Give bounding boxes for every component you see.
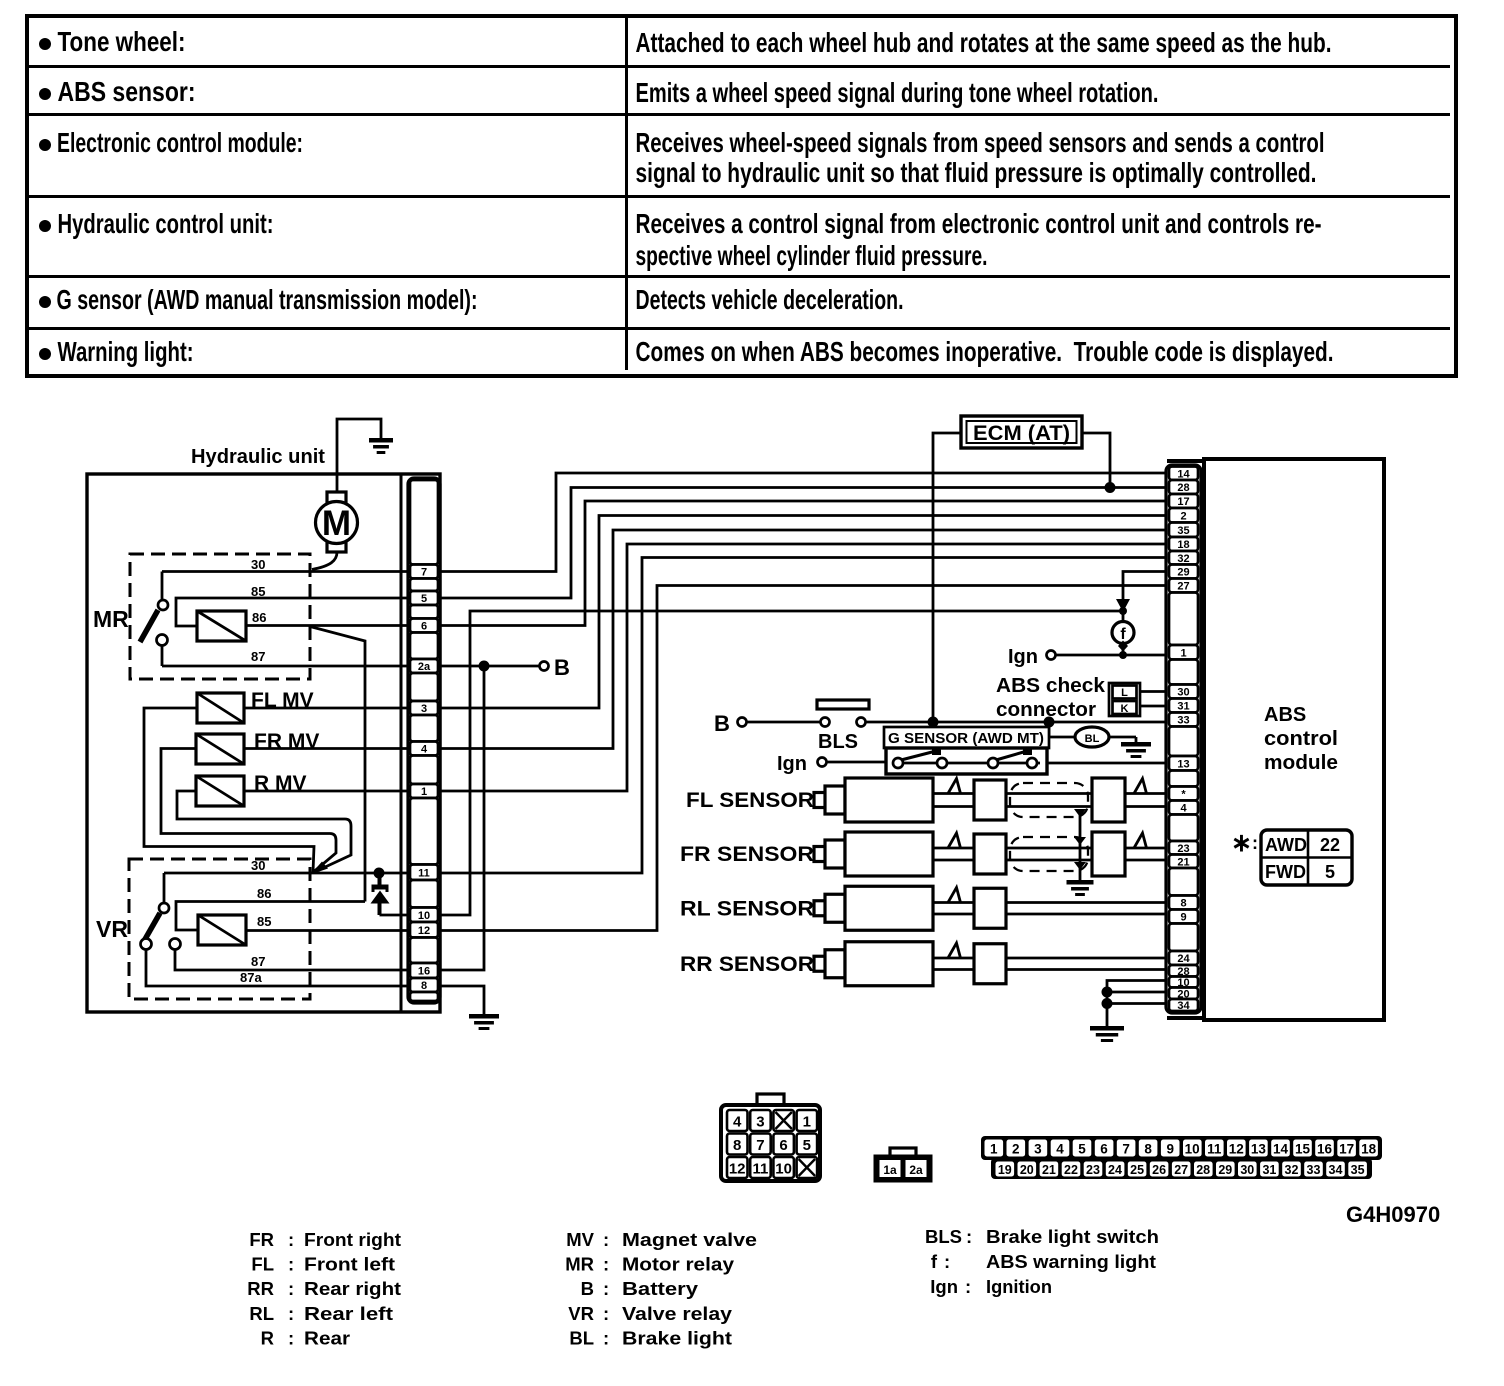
wire ECM to ABS pin 28 line: [1082, 433, 1110, 488]
36-pin connector (ABS control module): [981, 1136, 1382, 1179]
svg-text:Warning light:: Warning light:: [58, 336, 194, 367]
pin 5 (hydraulic unit connector): [410, 591, 438, 605]
svg-text:Front left: Front left: [304, 1254, 395, 1275]
wire MR 85 to pin 5: [176, 598, 408, 626]
svg-text:M: M: [322, 504, 351, 543]
svg-text:Emits a wheel speed signal dur: Emits a wheel speed signal during tone w…: [636, 77, 1159, 108]
svg-text:17: 17: [1339, 1142, 1354, 1157]
pin 10 (hydraulic unit connector): [410, 908, 438, 923]
ground (valve relay 87a): [469, 1014, 499, 1030]
wheel speed sensor RR: [680, 942, 1006, 986]
svg-text:2: 2: [1180, 510, 1186, 522]
svg-text:2: 2: [1012, 1142, 1020, 1157]
table row 6: Warning light: [39, 336, 1334, 367]
svg-text:6: 6: [421, 621, 427, 633]
battery terminal B (brake switch feed): [714, 711, 747, 736]
svg-text:8: 8: [421, 980, 427, 992]
table row 4: Hydraulic control unit: [39, 208, 1322, 271]
svg-text:FR: FR: [249, 1229, 274, 1250]
wire motor to ground: [337, 419, 381, 492]
pin 21 (ABS control module): [1169, 855, 1198, 869]
svg-text::: :: [603, 1328, 609, 1349]
svg-text:Tone wheel:: Tone wheel:: [58, 26, 186, 57]
wire G sensor to pin 13: [1047, 762, 1167, 765]
svg-text:ABS: ABS: [1264, 704, 1306, 726]
wire Ign to G sensor: [827, 761, 887, 764]
svg-text:86: 86: [257, 886, 271, 901]
pin 16 (hydraulic unit connector): [410, 963, 438, 978]
pin 6 (hydraulic unit connector): [410, 619, 438, 633]
svg-text:RR: RR: [247, 1278, 274, 1299]
svg-text:30: 30: [1177, 687, 1189, 699]
svg-text:Ignition: Ignition: [986, 1276, 1052, 1297]
svg-text:Valve relay: Valve relay: [622, 1303, 733, 1324]
svg-text:1: 1: [1180, 647, 1186, 659]
table row 2: ABS sensor: [39, 76, 1159, 108]
svg-text:Brake light switch: Brake light switch: [986, 1226, 1159, 1247]
svg-text:K: K: [1121, 703, 1129, 715]
hydraulic unit box: [87, 474, 440, 1012]
pin 17 (ABS control module): [1169, 494, 1198, 508]
svg-text:Electronic control module:: Electronic control module:: [57, 127, 303, 158]
svg-text:24: 24: [1108, 1163, 1122, 1177]
svg-text:10: 10: [775, 1161, 792, 1178]
svg-text:1: 1: [990, 1142, 998, 1157]
junction arrow on VR 30 wire: [311, 862, 329, 875]
svg-text:Hydraulic unit: Hydraulic unit: [191, 446, 325, 468]
svg-text:13: 13: [1251, 1142, 1267, 1157]
battery terminal B: [540, 655, 570, 680]
pin 32 (ABS control module): [1169, 551, 1198, 565]
G sensor label box: [884, 727, 1049, 748]
wire motor to relay contact: [312, 552, 337, 570]
svg-text::: :: [288, 1278, 294, 1299]
svg-text:Ign: Ign: [777, 753, 807, 775]
wire Ign to ABS pin 1: [1056, 654, 1167, 657]
wire R MV to pin 1: [244, 790, 408, 793]
pin 18 (ABS control module): [1169, 537, 1198, 551]
svg-text:12: 12: [729, 1161, 746, 1178]
svg-text:L: L: [1121, 687, 1128, 699]
svg-text:ECM (AT): ECM (AT): [973, 422, 1070, 445]
svg-text:Ign: Ign: [930, 1276, 958, 1297]
svg-text:87a: 87a: [240, 970, 262, 985]
svg-text::: :: [288, 1254, 294, 1275]
svg-text:11: 11: [1207, 1142, 1222, 1157]
svg-text:8: 8: [1144, 1142, 1152, 1157]
junction (battery feed): [479, 661, 490, 672]
wire pin10 to warning lamp line: [440, 611, 1123, 915]
wire pin11 to ABS pin 32: [440, 558, 1167, 874]
table row 5: G sensor: [39, 284, 904, 315]
magnet valve FL MV: [197, 693, 244, 723]
label ABS control module: [1264, 704, 1338, 774]
ground (brake light): [1121, 742, 1151, 758]
pin 8 (hydraulic unit connector): [410, 978, 438, 992]
pin 28 (ABS control module): [1169, 965, 1198, 978]
svg-text:1: 1: [803, 1114, 811, 1131]
wire VR 87 to pin 16: [175, 950, 408, 971]
svg-text:22: 22: [1320, 835, 1340, 855]
wire FR MV to pin 4: [244, 747, 408, 750]
svg-text:26: 26: [1152, 1163, 1166, 1177]
svg-text:BLS: BLS: [818, 731, 858, 753]
svg-text:27: 27: [1177, 581, 1189, 593]
svg-text:RR SENSOR: RR SENSOR: [680, 953, 814, 976]
svg-text:Rear: Rear: [304, 1328, 350, 1349]
motor relay MR (dashed enclosure): [130, 554, 310, 679]
svg-text:10: 10: [418, 910, 430, 922]
svg-text:5: 5: [1078, 1142, 1086, 1157]
shielded cable (FR SENSOR): [1006, 832, 1167, 876]
svg-text:module: module: [1264, 752, 1338, 774]
wire MR 87 to pin 2a: [162, 665, 408, 668]
svg-text:G sensor (AWD manual transmiss: G sensor (AWD manual transmission model)…: [57, 284, 478, 315]
svg-text:20: 20: [1020, 1163, 1034, 1177]
ABS module connector strip: [1166, 465, 1201, 1013]
svg-text:4: 4: [1180, 803, 1187, 815]
MR switch contact: [140, 572, 168, 667]
brake light switch BLS: [817, 700, 869, 753]
svg-text:35: 35: [1351, 1163, 1365, 1177]
svg-text:14: 14: [1177, 468, 1190, 480]
svg-text:FL SENSOR: FL SENSOR: [686, 789, 814, 812]
svg-text:33: 33: [1307, 1163, 1321, 1177]
svg-text:Comes on when ABS becomes inop: Comes on when ABS becomes inoperative. T…: [636, 336, 1334, 367]
pin 10 (ABS control module): [1169, 977, 1198, 990]
wire L to pin 30: [1140, 690, 1167, 693]
svg-text:5: 5: [803, 1137, 811, 1154]
svg-text:Front right: Front right: [304, 1229, 401, 1250]
svg-text:1a: 1a: [883, 1163, 897, 1177]
svg-text:24: 24: [1177, 953, 1190, 965]
svg-text:∗: ∗: [1231, 829, 1252, 857]
svg-text:f: f: [1120, 626, 1126, 643]
svg-text:7: 7: [1122, 1142, 1130, 1157]
wire MR 30 to pin 7: [162, 570, 408, 573]
pin 1 (ABS control module): [1169, 645, 1198, 660]
svg-text:16: 16: [418, 966, 430, 978]
pin * (ABS control module): [1169, 787, 1198, 801]
svg-text:4: 4: [733, 1114, 742, 1131]
svg-text:B: B: [554, 655, 570, 680]
svg-text:2a: 2a: [418, 661, 431, 673]
svg-text:Brake light: Brake light: [622, 1328, 732, 1349]
svg-text:30: 30: [251, 858, 265, 873]
svg-text:32: 32: [1285, 1163, 1299, 1177]
svg-text:G4H0970: G4H0970: [1346, 1202, 1440, 1227]
junction on VR30 wire: [374, 868, 385, 879]
ABS check connector L/K: [1109, 683, 1140, 716]
svg-text:5: 5: [421, 593, 427, 605]
wire pin8 to ground: [440, 986, 484, 1014]
svg-text:35: 35: [1177, 525, 1189, 537]
svg-text:29: 29: [1177, 567, 1189, 579]
svg-text:G SENSOR (AWD MT): G SENSOR (AWD MT): [888, 731, 1044, 747]
svg-text:Hydraulic control unit:: Hydraulic control unit:: [58, 208, 274, 239]
svg-text:ABS warning light: ABS warning light: [986, 1251, 1156, 1272]
MR coil: [197, 611, 246, 641]
pin 12 (hydraulic unit connector): [410, 922, 438, 938]
svg-text:spective wheel cylinder fluid: spective wheel cylinder fluid pressure.: [636, 240, 988, 271]
wire pin 2a to battery B: [440, 665, 539, 668]
svg-text:22: 22: [1064, 1163, 1078, 1177]
shielded cable (FL SENSOR): [1006, 778, 1167, 822]
pin 13 (ABS control module): [1169, 756, 1198, 771]
svg-text:f: f: [931, 1251, 938, 1272]
svg-text:6: 6: [1100, 1142, 1108, 1157]
svg-text:Receives wheel-speed signals f: Receives wheel-speed signals from speed …: [636, 127, 1325, 158]
wire MR86 tap down to VR86: [310, 627, 365, 902]
warning lamp f: [1112, 611, 1134, 655]
wire BLS to pin 33: [866, 721, 1168, 724]
svg-text:7: 7: [756, 1137, 764, 1154]
svg-text:16: 16: [1317, 1142, 1333, 1157]
wire pin4 to ABS pin 35: [440, 530, 1167, 749]
svg-text:4: 4: [421, 744, 428, 756]
svg-text:29: 29: [1218, 1163, 1232, 1177]
pin 4 (ABS control module): [1169, 801, 1198, 815]
svg-text:2a: 2a: [909, 1163, 923, 1177]
wire VR 87a to pin 8: [146, 950, 408, 987]
svg-text:85: 85: [257, 914, 271, 929]
pin 9 (ABS control module): [1169, 910, 1198, 924]
pin 33 (ABS control module): [1169, 713, 1198, 727]
svg-text:4: 4: [1056, 1142, 1064, 1157]
pin 4 (hydraulic unit connector): [410, 742, 438, 756]
ignition terminal Ign (G sensor): [777, 753, 827, 775]
table row 3: Electronic control module: [39, 127, 1325, 188]
svg-text:17: 17: [1177, 496, 1189, 508]
svg-text:MR: MR: [93, 606, 129, 632]
ground (motor): [369, 438, 393, 454]
wire ABS pin 29 to warning lamp: [1123, 572, 1167, 601]
2-pin connector 1a/2a: [875, 1148, 931, 1181]
VR coil: [198, 915, 246, 945]
diode D1 (to warning lamp line): [371, 873, 409, 915]
pin 14 (ABS control module): [1169, 467, 1198, 481]
svg-text:25: 25: [1130, 1163, 1144, 1177]
svg-text:11: 11: [418, 867, 430, 879]
pin 29 (ABS control module): [1169, 565, 1198, 579]
svg-text:control: control: [1264, 728, 1338, 750]
svg-text::: :: [603, 1254, 609, 1275]
svg-text:31: 31: [1262, 1163, 1276, 1177]
svg-text:VR: VR: [96, 916, 128, 942]
svg-text:11: 11: [752, 1161, 768, 1178]
VR switch contact: [141, 873, 181, 950]
pin 2a (hydraulic unit connector): [410, 659, 438, 673]
pin 28 (ABS control module): [1169, 480, 1198, 494]
svg-text:28: 28: [1177, 482, 1189, 494]
svg-text:87: 87: [251, 954, 265, 969]
pin 34 (ABS control module): [1169, 999, 1198, 1012]
svg-text:R: R: [261, 1328, 274, 1349]
svg-text:VR: VR: [568, 1303, 594, 1324]
wheel speed sensor FL: [686, 778, 1006, 822]
pin 11 (hydraulic unit connector): [410, 865, 438, 881]
ignition terminal Ign: [1008, 646, 1056, 668]
wire K to pin 31: [1140, 705, 1167, 708]
svg-text::: :: [966, 1226, 972, 1247]
svg-text:B: B: [581, 1278, 594, 1299]
svg-text:12: 12: [1229, 1142, 1244, 1157]
svg-text:13: 13: [1177, 758, 1189, 770]
wire FR MV return: [161, 749, 336, 872]
svg-text:RL: RL: [249, 1303, 274, 1324]
svg-text:Detects vehicle deceleration.: Detects vehicle deceleration.: [636, 284, 904, 315]
svg-text:19: 19: [998, 1163, 1012, 1177]
svg-text:33: 33: [1177, 715, 1189, 727]
wire VR 85 to pin 12: [246, 929, 408, 932]
wire pin5 to ABS pin 28: [440, 488, 1167, 599]
svg-text:5: 5: [1325, 862, 1335, 882]
label ABS check connector: [996, 675, 1106, 721]
svg-text:RL SENSOR: RL SENSOR: [680, 897, 814, 920]
svg-text:MV: MV: [566, 1229, 594, 1250]
svg-text:6: 6: [779, 1137, 787, 1154]
svg-text:21: 21: [1042, 1163, 1056, 1177]
svg-text:30: 30: [251, 557, 265, 572]
svg-text:32: 32: [1177, 553, 1189, 565]
svg-text:9: 9: [1166, 1142, 1174, 1157]
pin 2 (ABS control module): [1169, 508, 1198, 523]
svg-text:Ign: Ign: [1008, 646, 1038, 668]
svg-text:21: 21: [1177, 856, 1189, 868]
svg-text:Magnet valve: Magnet valve: [622, 1229, 757, 1250]
svg-text:9: 9: [1180, 912, 1186, 924]
12-pin connector (hydraulic unit): [721, 1094, 820, 1181]
svg-text:31: 31: [1177, 701, 1189, 713]
svg-text:23: 23: [1086, 1163, 1100, 1177]
wire pin6 to ABS pin 17: [440, 501, 1167, 626]
svg-text::: :: [288, 1303, 294, 1324]
brake light BL: [1049, 722, 1136, 747]
svg-text:3: 3: [421, 703, 427, 715]
harness arrow: [1116, 599, 1130, 612]
svg-text:8: 8: [733, 1137, 741, 1154]
svg-text::: :: [603, 1303, 609, 1324]
svg-text:3: 3: [756, 1114, 764, 1131]
wheel speed sensor RL: [680, 886, 1006, 930]
wire VR 30 to pin 11: [164, 872, 408, 875]
svg-text:15: 15: [1295, 1142, 1311, 1157]
svg-text:FL: FL: [251, 1254, 274, 1275]
svg-text:Rear left: Rear left: [304, 1303, 393, 1324]
G sensor switch box: [886, 747, 1047, 774]
pin 23 (ABS control module): [1169, 841, 1198, 855]
magnet valve FR MV: [196, 734, 244, 764]
svg-text::: :: [288, 1328, 294, 1349]
wire pin12 to ABS pin 27: [440, 586, 1167, 931]
svg-text::: :: [1252, 833, 1258, 853]
wire B to BLS: [747, 721, 821, 724]
svg-text:86: 86: [252, 610, 266, 625]
wire VR 86: [176, 902, 365, 931]
wires RR SENSOR to module: [1006, 958, 1167, 970]
ECM (AT) box: [961, 416, 1082, 448]
svg-text:FWD: FWD: [1265, 862, 1306, 882]
svg-text:BL: BL: [1085, 733, 1100, 745]
svg-text:7: 7: [421, 567, 427, 579]
valve relay VR (dashed enclosure): [129, 859, 310, 999]
svg-text:ABS sensor:: ABS sensor:: [58, 76, 196, 107]
svg-text:BL: BL: [569, 1328, 594, 1349]
pin 8 (ABS control module): [1169, 896, 1198, 910]
pin 24 (ABS control module): [1169, 951, 1198, 965]
motor M1: [316, 492, 358, 552]
svg-text:3: 3: [1034, 1142, 1042, 1157]
ground (ABS module): [1090, 1026, 1124, 1042]
svg-text:MR: MR: [565, 1254, 594, 1275]
pin 30 (ABS control module): [1169, 685, 1198, 699]
svg-text:Attached to each wheel hub and: Attached to each wheel hub and rotates a…: [636, 27, 1332, 58]
ground (sensor shield): [1067, 880, 1094, 896]
svg-text:27: 27: [1174, 1163, 1188, 1177]
svg-text:12: 12: [418, 925, 430, 937]
svg-text:28: 28: [1196, 1163, 1210, 1177]
svg-text:BLS: BLS: [925, 1226, 962, 1247]
svg-text:B: B: [714, 711, 730, 736]
svg-text:signal to hydraulic unit so th: signal to hydraulic unit so that fluid p…: [636, 157, 1317, 188]
svg-text::: :: [603, 1229, 609, 1250]
wire MR 86 to pin 6: [246, 624, 408, 627]
wire pin16 to battery junction: [440, 666, 484, 970]
svg-text::: :: [944, 1251, 950, 1272]
magnet valve R MV: [196, 776, 244, 806]
svg-text:1: 1: [421, 786, 427, 798]
svg-text:ABS check: ABS check: [996, 675, 1106, 697]
svg-text:Receives a control signal from: Receives a control signal from electroni…: [636, 208, 1322, 239]
pin 3 (hydraulic unit connector): [410, 701, 438, 715]
wires RL SENSOR to module: [1006, 903, 1167, 915]
svg-text:34: 34: [1329, 1163, 1343, 1177]
svg-text:10: 10: [1185, 1142, 1200, 1157]
pin 7 (hydraulic unit connector): [410, 565, 438, 579]
pin 27 (ABS control module): [1169, 579, 1198, 593]
wire FL MV return: [144, 708, 314, 872]
wire ECM to brake light switch line: [933, 433, 961, 722]
svg-text:Motor relay: Motor relay: [622, 1254, 735, 1275]
wire pins 10/20/34 to ground: [1107, 981, 1167, 1027]
AWD/FWD pin table: [1261, 830, 1352, 885]
svg-text:14: 14: [1273, 1142, 1289, 1157]
pin 31 (ABS control module): [1169, 699, 1198, 713]
svg-text:Rear right: Rear right: [304, 1278, 401, 1299]
pin 1 (hydraulic unit connector): [410, 784, 438, 798]
ABS control module box: [1204, 459, 1384, 1020]
component description table: [25, 14, 1458, 378]
svg-text:30: 30: [1240, 1163, 1254, 1177]
wire pin1 to ABS pin 18: [440, 544, 1167, 791]
svg-text::: :: [603, 1278, 609, 1299]
svg-text::: :: [965, 1276, 971, 1297]
shield drain wire and ground: [1074, 809, 1086, 880]
svg-text:FR SENSOR: FR SENSOR: [680, 843, 814, 866]
svg-text:34: 34: [1177, 1000, 1190, 1012]
wire pin3 to ABS pin 2: [440, 516, 1167, 709]
hydraulic unit connector strip: [408, 478, 440, 1003]
svg-text:AWD: AWD: [1265, 835, 1307, 855]
svg-text::: :: [288, 1229, 294, 1250]
wheel speed sensor FR: [680, 832, 1006, 876]
svg-text:18: 18: [1361, 1142, 1377, 1157]
svg-text:87: 87: [251, 649, 265, 664]
wire pin7 to ABS pin 14: [440, 473, 1167, 572]
pin 35 (ABS control module): [1169, 523, 1198, 538]
pin 20 (ABS control module): [1169, 988, 1198, 1001]
svg-text:8: 8: [1180, 898, 1186, 910]
